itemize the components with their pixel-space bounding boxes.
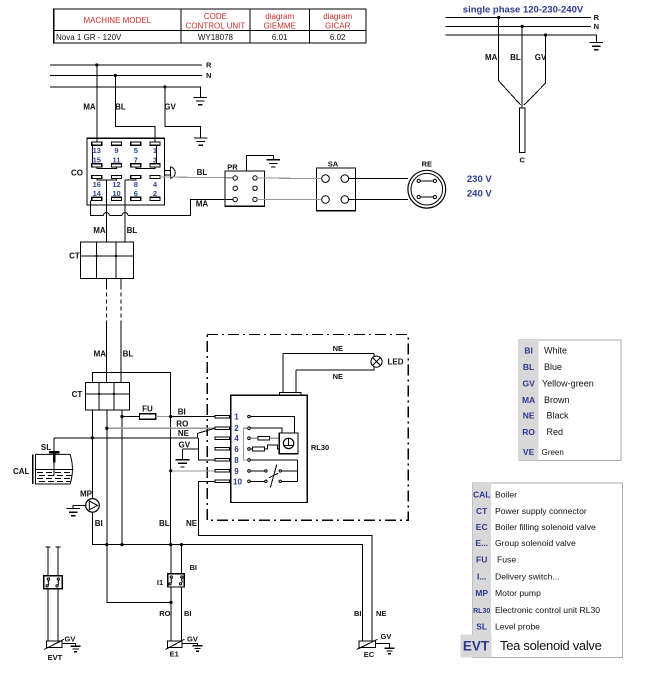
- svg-text:GV: GV: [522, 379, 535, 389]
- svg-text:11: 11: [113, 155, 121, 164]
- svg-text:MA: MA: [93, 226, 106, 235]
- svg-text:BI: BI: [190, 563, 198, 572]
- svg-text:single phase 120-230-240V: single phase 120-230-240V: [463, 5, 584, 16]
- svg-text:Nova 1 GR - 120V: Nova 1 GR - 120V: [56, 33, 122, 42]
- svg-text:16: 16: [93, 180, 101, 189]
- svg-text:CAL: CAL: [13, 467, 30, 476]
- svg-text:BI: BI: [184, 609, 192, 618]
- svg-text:SL: SL: [41, 443, 51, 452]
- svg-text:R: R: [206, 61, 212, 70]
- svg-text:VE: VE: [523, 447, 535, 457]
- svg-text:Level probe: Level probe: [495, 622, 540, 632]
- svg-text:I...: I...: [477, 572, 486, 582]
- svg-text:CONTROL UNIT: CONTROL UNIT: [186, 22, 246, 31]
- svg-text:NE: NE: [186, 519, 198, 528]
- svg-text:RL30: RL30: [473, 608, 490, 615]
- svg-text:Brown: Brown: [544, 395, 570, 405]
- svg-text:14: 14: [93, 189, 102, 198]
- svg-text:Group solenoid valve: Group solenoid valve: [495, 538, 576, 548]
- svg-text:N: N: [206, 71, 211, 80]
- svg-text:NE: NE: [333, 372, 343, 381]
- svg-text:Boiler: Boiler: [495, 489, 517, 499]
- svg-text:Tea solenoid valve: Tea solenoid valve: [500, 638, 602, 653]
- svg-text:GV: GV: [535, 53, 547, 62]
- svg-text:GV: GV: [65, 634, 76, 643]
- svg-text:Red: Red: [547, 427, 564, 437]
- svg-text:6: 6: [234, 445, 239, 454]
- svg-text:CAL: CAL: [473, 489, 490, 499]
- svg-text:BL: BL: [197, 168, 208, 177]
- svg-text:MP: MP: [475, 588, 488, 598]
- svg-text:GV: GV: [164, 102, 176, 111]
- svg-text:GV: GV: [187, 634, 198, 643]
- svg-text:BI: BI: [524, 345, 533, 355]
- svg-text:6.02: 6.02: [330, 33, 346, 42]
- svg-text:NE: NE: [178, 429, 190, 438]
- svg-text:2: 2: [234, 424, 239, 433]
- svg-text:R: R: [594, 13, 600, 22]
- svg-text:RL30: RL30: [311, 443, 329, 452]
- svg-text:13: 13: [93, 146, 101, 155]
- svg-text:White: White: [544, 345, 567, 355]
- svg-text:Power supply connector: Power supply connector: [495, 506, 587, 516]
- svg-text:I1: I1: [157, 578, 163, 587]
- svg-text:FU: FU: [142, 405, 153, 414]
- svg-text:Blue: Blue: [544, 362, 562, 372]
- svg-text:SA: SA: [328, 160, 339, 169]
- svg-text:12: 12: [112, 180, 120, 189]
- svg-text:diagram: diagram: [323, 12, 352, 21]
- svg-text:RE: RE: [422, 159, 432, 168]
- svg-text:MA: MA: [485, 53, 498, 62]
- svg-text:Delivery switch...: Delivery switch...: [495, 572, 559, 582]
- svg-text:SL: SL: [476, 622, 487, 632]
- svg-text:8: 8: [134, 180, 138, 189]
- svg-text:GV: GV: [381, 632, 392, 641]
- svg-text:Yellow-green: Yellow-green: [542, 379, 594, 389]
- svg-text:EC: EC: [364, 650, 375, 659]
- svg-text:LED: LED: [388, 357, 404, 366]
- svg-text:9: 9: [234, 467, 239, 476]
- svg-text:BI: BI: [354, 609, 362, 618]
- svg-text:RO: RO: [176, 419, 188, 428]
- svg-text:Black: Black: [547, 411, 570, 421]
- svg-text:5: 5: [134, 146, 138, 155]
- svg-text:NE: NE: [333, 344, 343, 353]
- svg-text:6.01: 6.01: [272, 33, 288, 42]
- svg-text:EC: EC: [476, 522, 488, 532]
- svg-text:BL: BL: [159, 519, 170, 528]
- svg-text:MP: MP: [80, 490, 93, 499]
- svg-text:FU: FU: [476, 555, 487, 565]
- svg-text:MA: MA: [522, 395, 535, 405]
- svg-text:BI: BI: [178, 408, 186, 417]
- svg-text:NE: NE: [376, 609, 386, 618]
- svg-text:E...: E...: [475, 538, 488, 548]
- svg-text:4: 4: [234, 434, 239, 443]
- svg-text:BI: BI: [95, 519, 103, 528]
- svg-text:10: 10: [112, 189, 120, 198]
- svg-text:CT: CT: [72, 390, 83, 399]
- svg-text:15: 15: [93, 155, 101, 164]
- svg-text:N: N: [594, 22, 599, 31]
- svg-text:MA: MA: [83, 102, 96, 111]
- svg-text:diagram: diagram: [265, 12, 294, 21]
- svg-text:9: 9: [114, 146, 118, 155]
- svg-text:EVT: EVT: [463, 639, 490, 654]
- svg-text:BL: BL: [523, 362, 534, 372]
- svg-text:240 V: 240 V: [467, 188, 492, 199]
- svg-text:EVT: EVT: [48, 653, 63, 662]
- svg-text:C: C: [519, 156, 525, 165]
- svg-text:BL: BL: [115, 102, 126, 111]
- svg-text:1: 1: [234, 413, 239, 422]
- svg-text:MA: MA: [94, 350, 107, 359]
- svg-text:MA: MA: [196, 200, 209, 209]
- svg-text:NE: NE: [523, 411, 535, 421]
- svg-text:Fuse: Fuse: [497, 555, 516, 565]
- svg-text:Green: Green: [542, 448, 564, 457]
- svg-text:CO: CO: [71, 168, 83, 177]
- svg-text:8: 8: [234, 456, 239, 465]
- svg-text:10: 10: [233, 477, 242, 486]
- svg-text:Electronic control unit RL30: Electronic control unit RL30: [495, 605, 600, 615]
- svg-text:BL: BL: [127, 226, 138, 235]
- svg-text:PR: PR: [227, 163, 238, 172]
- svg-text:2: 2: [153, 189, 157, 198]
- svg-text:7: 7: [134, 155, 138, 164]
- svg-text:BL: BL: [510, 53, 521, 62]
- svg-text:RO: RO: [522, 427, 535, 437]
- svg-text:CODE: CODE: [204, 12, 227, 21]
- svg-text:GIEMME: GIEMME: [263, 22, 295, 31]
- svg-text:GV: GV: [179, 440, 191, 449]
- svg-text:6: 6: [134, 189, 138, 198]
- svg-text:BL: BL: [123, 350, 134, 359]
- svg-text:230 V: 230 V: [467, 174, 492, 185]
- svg-text:Motor pump: Motor pump: [495, 588, 541, 598]
- svg-text:CT: CT: [476, 506, 488, 516]
- svg-text:RO: RO: [159, 609, 170, 618]
- svg-text:E1: E1: [170, 650, 179, 659]
- svg-text:MACHINE MODEL: MACHINE MODEL: [84, 16, 152, 25]
- svg-text:Boiler filling solenoid valve: Boiler filling solenoid valve: [495, 522, 596, 532]
- svg-text:CT: CT: [69, 252, 80, 261]
- svg-text:WY18078: WY18078: [198, 33, 234, 42]
- svg-text:GICAR: GICAR: [325, 22, 351, 31]
